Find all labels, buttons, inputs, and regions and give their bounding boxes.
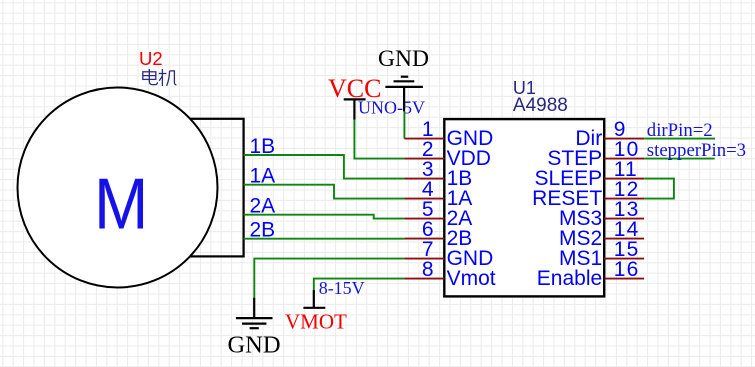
- wire VCC to pin 2 VDD: [354, 120, 404, 159]
- wire pin 7 GND to bottom ground: [254, 259, 404, 298]
- svg-text:1A: 1A: [250, 165, 276, 188]
- wire stepperPin net from pin 10: [644, 158, 715, 160]
- pin 9 stub: [604, 138, 644, 140]
- pin 7 stub: [404, 258, 444, 260]
- svg-text:GND: GND: [378, 46, 429, 72]
- pin 13 stub: [604, 218, 644, 220]
- svg-text:Vmot: Vmot: [447, 267, 496, 290]
- svg-text:1B: 1B: [250, 135, 276, 158]
- pin 8 stub: [404, 278, 444, 280]
- svg-text:stepperPin=3: stepperPin=3: [647, 140, 746, 161]
- wire ground to pin 1 GND: [403, 111, 405, 138]
- pin 3 stub: [404, 178, 444, 180]
- pin 2 stub: [404, 158, 444, 160]
- svg-text:VMOT: VMOT: [285, 310, 347, 334]
- pin 16 stub: [604, 278, 644, 280]
- pin 11 stub: [604, 178, 644, 180]
- svg-text:U2: U2: [139, 48, 163, 69]
- IC U1 A4988 body: [444, 119, 604, 296]
- pin 5 stub: [404, 218, 444, 220]
- motor name 电机 (drawn glyphs): [143, 69, 177, 86]
- wire pin 8 Vmot to VMOT flag: [314, 279, 405, 290]
- svg-text:GND: GND: [227, 331, 280, 358]
- svg-text:8: 8: [422, 258, 434, 281]
- ground symbol bottom (earth): [236, 298, 273, 329]
- ground symbol top (inverted earth): [385, 77, 423, 112]
- wire dirPin net from pin 9: [644, 138, 715, 140]
- svg-text:UNO-5V: UNO-5V: [358, 98, 425, 118]
- motor letter M: [94, 163, 148, 244]
- wire 1B (motor to pin 3): [244, 155, 405, 179]
- pin 14 stub: [604, 238, 644, 240]
- pin 10 stub: [604, 158, 644, 160]
- wire 2B (motor to pin 6): [244, 238, 405, 240]
- power flag VMOT symbol: [303, 290, 325, 308]
- pin 15 stub: [604, 258, 644, 260]
- svg-text:dirPin=2: dirPin=2: [647, 120, 713, 141]
- svg-text:2A: 2A: [250, 195, 276, 218]
- wire 2A (motor to pin 5): [244, 215, 405, 219]
- pin 12 stub: [604, 198, 644, 200]
- svg-text:16: 16: [614, 258, 640, 281]
- wire 1A (motor to pin 4): [244, 185, 405, 199]
- motor M1 circle body: [18, 88, 218, 288]
- svg-text:A4988: A4988: [513, 95, 568, 116]
- power flag VCC symbol: [344, 99, 366, 119]
- pin 4 stub: [404, 198, 444, 200]
- svg-text:Enable: Enable: [537, 267, 602, 290]
- wire SLEEP to RESET (pins 11-12): [644, 179, 674, 199]
- motor terminal box (rectangle behind circle): [170, 119, 244, 257]
- svg-text:2B: 2B: [250, 219, 276, 242]
- svg-text:8-15V: 8-15V: [319, 278, 365, 298]
- pin 6 stub: [404, 238, 444, 240]
- svg-text:M: M: [94, 163, 148, 244]
- reference designator U2: [139, 48, 163, 69]
- pin 1 stub: [404, 138, 444, 140]
